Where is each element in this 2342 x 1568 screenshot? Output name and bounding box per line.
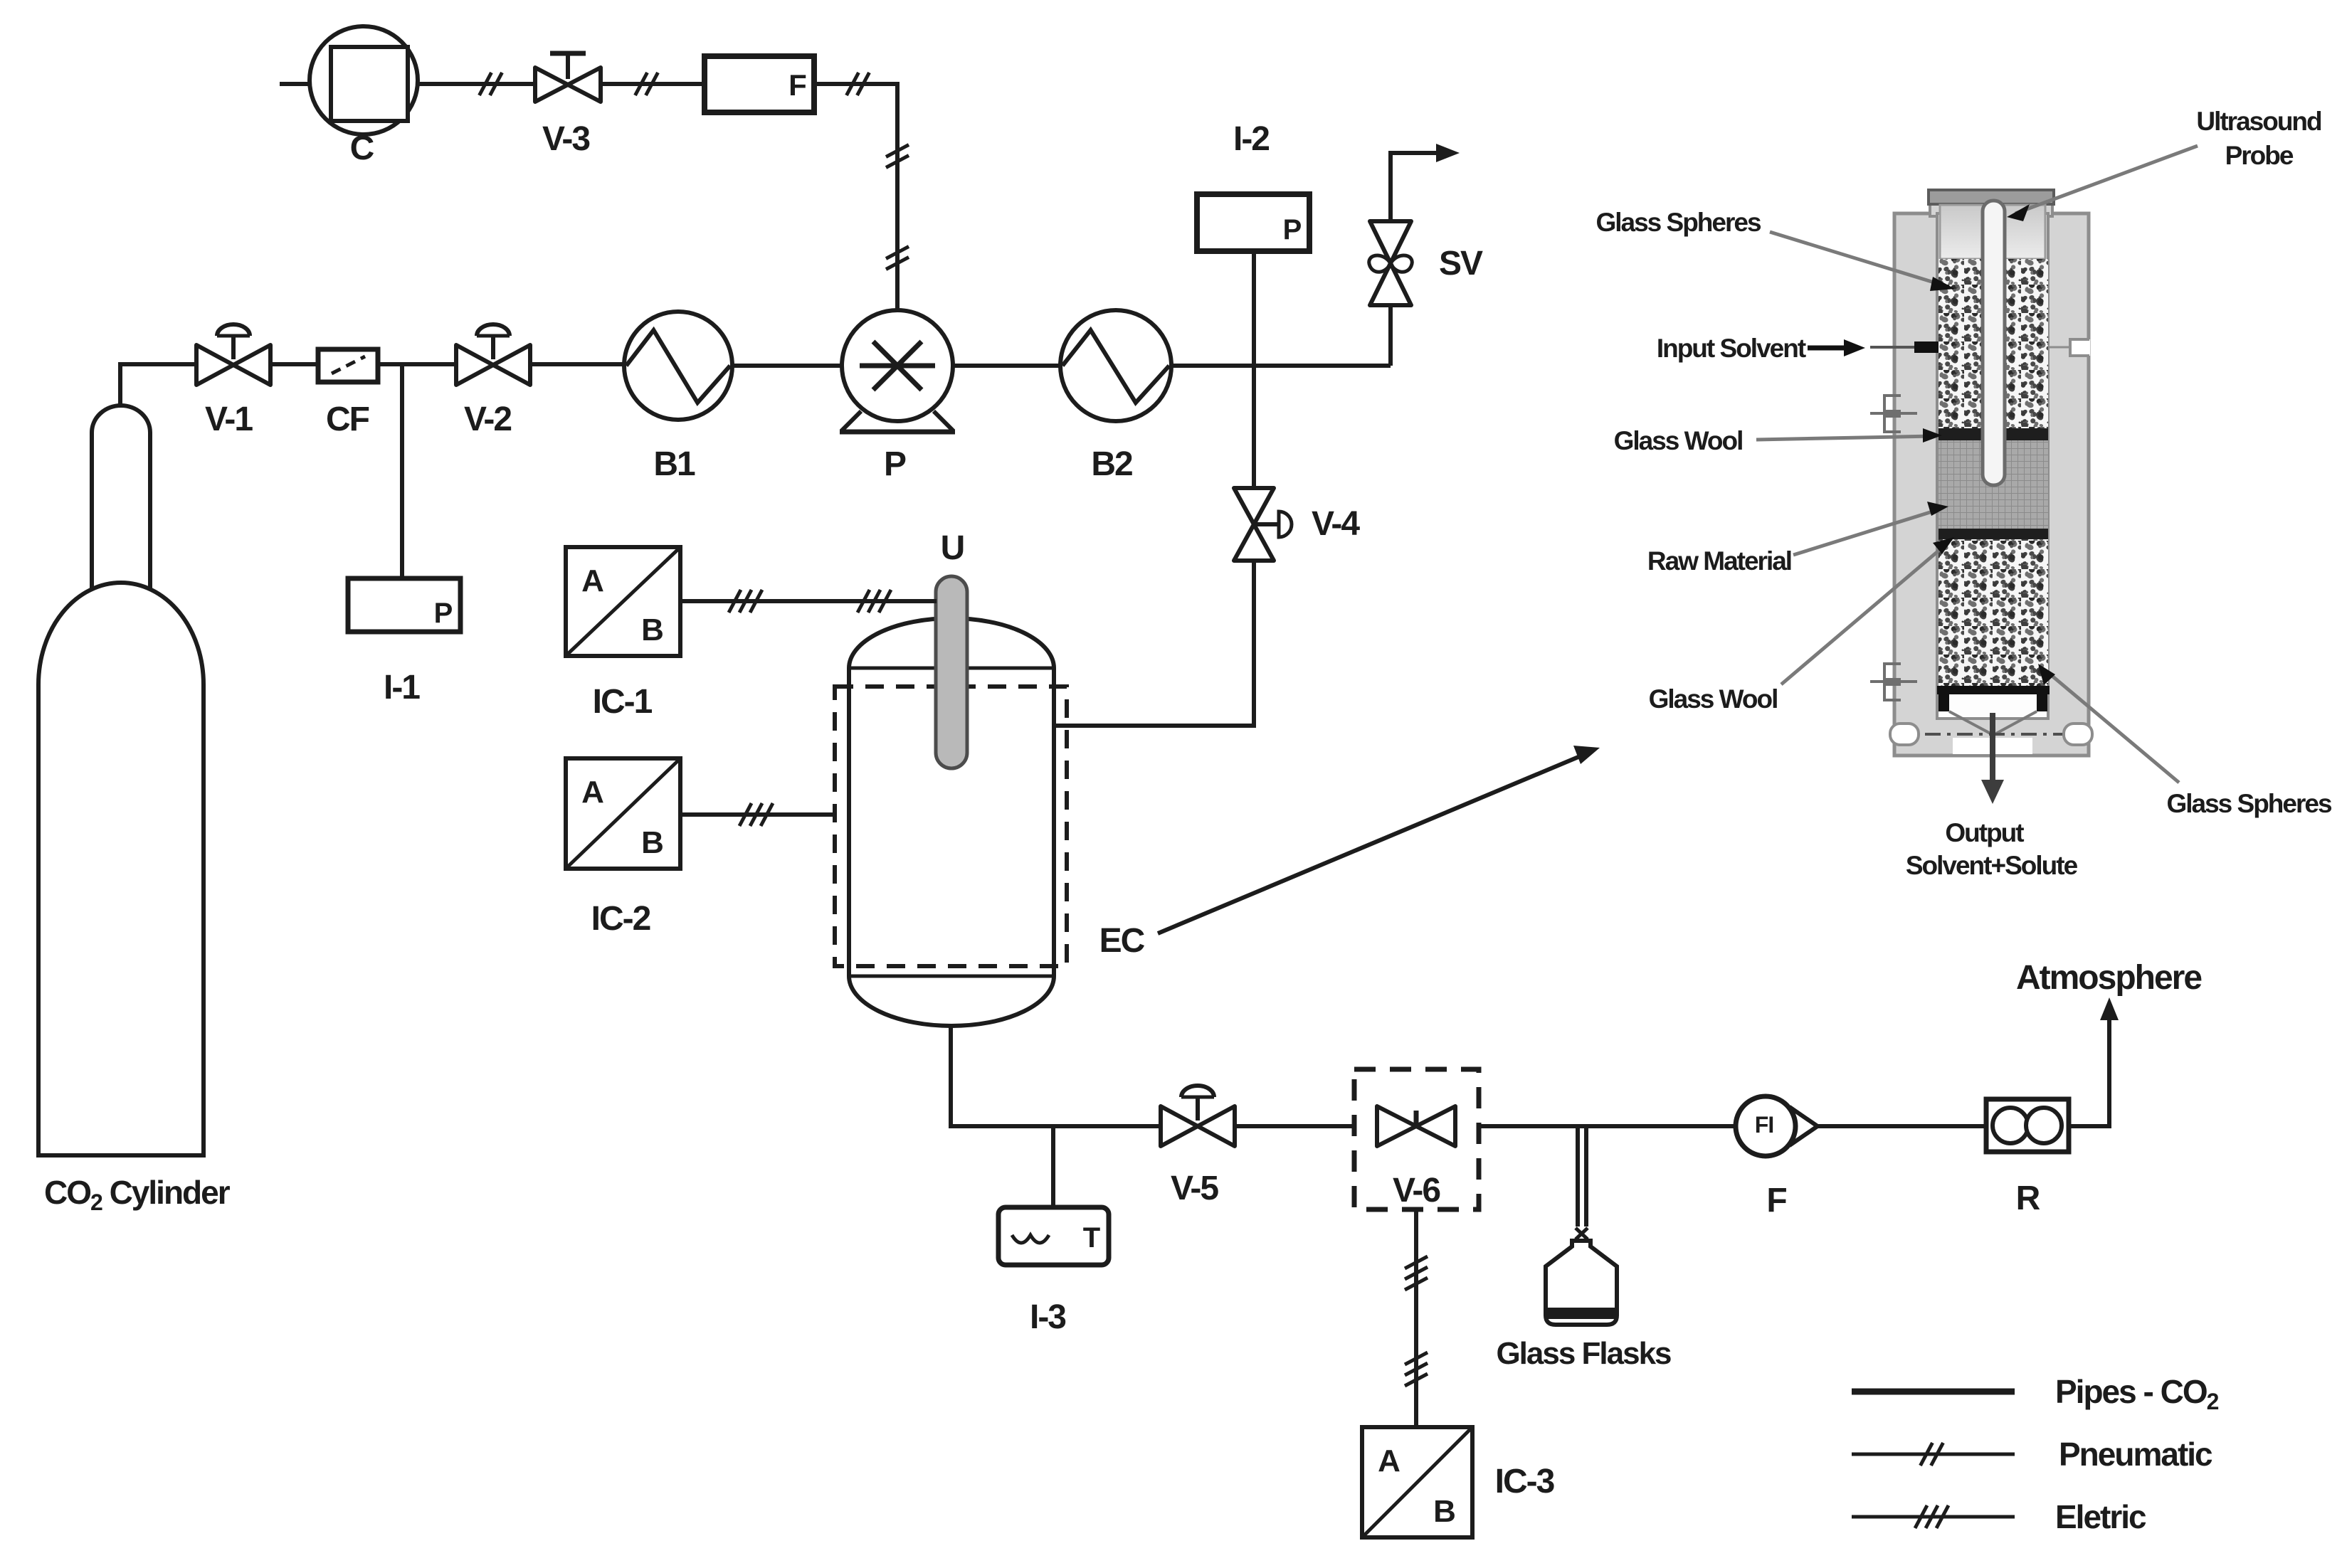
- svg-text:Atmosphere: Atmosphere: [2016, 959, 2202, 997]
- wire V-1 to CF: [270, 362, 318, 366]
- vent wire to atmosphere with arrow: [2069, 1013, 2109, 1126]
- svg-text:A: A: [1378, 1443, 1400, 1478]
- ultrasound probe U (grey rod): [936, 576, 967, 768]
- wire cylinder to V-1: [120, 364, 196, 406]
- svg-text:Input Solvent: Input Solvent: [1657, 334, 1806, 363]
- safety valve SV: [1370, 221, 1411, 305]
- svg-text:R: R: [2016, 1180, 2040, 1217]
- svg-text:IC-1: IC-1: [593, 683, 653, 721]
- filter F: [705, 56, 814, 112]
- svg-text:IC-3: IC-3: [1495, 1463, 1554, 1500]
- detail column: top cup interior: [1940, 205, 2045, 259]
- detail column: input solvent port: [1870, 346, 1916, 349]
- svg-text:Probe: Probe: [2225, 141, 2294, 170]
- svg-text:V-3: V-3: [542, 120, 589, 158]
- wire junction down to instrument I-3: [1051, 1126, 1055, 1207]
- glass flask: [1576, 1228, 1588, 1239]
- instrument IC-3 (A/B controller): [1362, 1427, 1472, 1537]
- vessel U shell: [849, 618, 1054, 1026]
- detail column: dark top cap: [1929, 190, 2054, 204]
- heat exchanger B1: [624, 312, 732, 420]
- instrument IC-2 (A/B controller): [566, 758, 680, 869]
- wire IC-1 to probe (electric): [680, 599, 937, 603]
- check valve / filter CF: [318, 349, 378, 382]
- wire V-2 to heat exchanger B1: [530, 362, 624, 366]
- svg-text:C: C: [350, 129, 374, 167]
- pump P: [840, 310, 955, 432]
- svg-text:I-2: I-2: [1233, 120, 1269, 158]
- detail column: flange dash-dot parting line: [1893, 733, 2090, 736]
- detail column: left bolt cutout: [1890, 724, 1919, 745]
- svg-text:A: A: [581, 775, 603, 810]
- detail column: funnel lines: [1949, 711, 2037, 733]
- svg-text:F: F: [788, 68, 806, 102]
- valve V-4: [1234, 488, 1274, 561]
- detail column: right side port notch: [2049, 346, 2070, 349]
- detail column: outer grey body: [1894, 213, 2089, 756]
- wire vessel bottom to bottom main line: [951, 1026, 1736, 1126]
- svg-text:Glass Spheres: Glass Spheres: [2166, 789, 2332, 818]
- svg-text:U: U: [941, 529, 964, 567]
- wire I-2 down through main line to V-4: [1252, 251, 1256, 489]
- svg-text:T: T: [1083, 1222, 1100, 1254]
- SV vent wire with arrow: [1391, 153, 1445, 221]
- detail column: glass wool band (upper): [1939, 428, 2048, 440]
- svg-text:I-3: I-3: [1030, 1298, 1065, 1336]
- flow indicator F (FI): [1793, 1109, 1818, 1143]
- svg-text:A: A: [581, 563, 603, 598]
- wire B1 to pump P: [732, 364, 842, 368]
- detail column: left clamp fitting (upper): [1870, 396, 1917, 432]
- wire V-6 to IC-3 (electric): [1414, 1209, 1418, 1427]
- legend: Pneumatic line: [1852, 1453, 2015, 1456]
- rotameter R: [1986, 1099, 2069, 1152]
- svg-text:IC-2: IC-2: [591, 900, 650, 938]
- detail column: bottom collector support: [1937, 686, 2050, 694]
- svg-text:Pipes - CO2: Pipes - CO2: [2055, 1373, 2219, 1414]
- svg-text:Ultrasound: Ultrasound: [2196, 107, 2321, 136]
- svg-text:P: P: [434, 598, 453, 629]
- heat exchanger B2: [1060, 310, 1171, 421]
- valve V-5: [1161, 1086, 1235, 1146]
- valve V-6 in dashed enclosure: [1354, 1069, 1479, 1209]
- compressor C: [310, 26, 418, 134]
- wire CF to V-2 with junction node: [378, 362, 456, 366]
- EC heating jacket (dashed) around vessel: [835, 687, 1067, 966]
- detail column: narrow top neck block: [1930, 202, 2052, 216]
- safety valve SV riser: [1388, 305, 1393, 366]
- svg-text:CF: CF: [326, 401, 369, 438]
- svg-text:EC: EC: [1099, 922, 1145, 960]
- svg-text:P: P: [1283, 214, 1302, 245]
- wire F to rotameter R: [1816, 1124, 1986, 1128]
- wire B2 to SV riser: [1171, 364, 1391, 368]
- svg-text:B: B: [641, 825, 663, 860]
- wire junction down to instrument I-1: [400, 364, 404, 578]
- svg-text:B: B: [1433, 1494, 1455, 1529]
- wire V-3 to filter F (pneumatic): [602, 82, 705, 86]
- valve V-2: [456, 324, 530, 385]
- wire V-4 down into vessel right side: [1054, 559, 1254, 726]
- detail column: glass spheres packing (bottom, stippled): [1939, 539, 2048, 687]
- svg-text:Pneumatic: Pneumatic: [2059, 1436, 2212, 1473]
- detail column: left clamp fitting (lower): [1870, 664, 1917, 700]
- svg-text:B: B: [641, 613, 663, 647]
- svg-text:V-6: V-6: [1393, 1172, 1440, 1209]
- svg-text:V-1: V-1: [205, 401, 253, 438]
- svg-text:FI: FI: [1755, 1112, 1773, 1138]
- instrument I-1 (pressure): [348, 578, 460, 632]
- svg-text:V-2: V-2: [464, 401, 511, 438]
- wire compressor C to valve V-3 (pneumatic): [418, 82, 534, 86]
- svg-text:Solvent+Solute: Solvent+Solute: [1906, 851, 2078, 880]
- svg-text:B2: B2: [1091, 445, 1132, 483]
- svg-text:V-4: V-4: [1312, 505, 1360, 543]
- svg-text:Glass Wool: Glass Wool: [1614, 426, 1743, 455]
- svg-text:SV: SV: [1439, 245, 1483, 282]
- svg-text:Eletric: Eletric: [2055, 1498, 2146, 1535]
- wire inlet stub to compressor: [280, 82, 311, 86]
- detail column: glass spheres packing (top, stippled): [1939, 259, 2048, 430]
- svg-text:Output: Output: [1945, 818, 2024, 847]
- svg-text:CO2 Cylinder: CO2 Cylinder: [44, 1174, 231, 1215]
- detail column: output arrow: [1990, 713, 1995, 783]
- detail column: inner bore: [1937, 213, 2048, 719]
- svg-text:Glass Flasks: Glass Flasks: [1496, 1336, 1671, 1371]
- wire junction to glass flask (double line): [1576, 1126, 1580, 1227]
- svg-text:P: P: [884, 445, 906, 483]
- svg-text:Glass Spheres: Glass Spheres: [1595, 208, 1761, 237]
- valve V-1: [196, 324, 270, 385]
- detail column: glass wool band (lower): [1939, 529, 2048, 539]
- CO2 cylinder: [92, 406, 150, 590]
- detail column: ultrasound probe rod: [1983, 201, 2005, 485]
- instrument I-3 (temperature): [998, 1207, 1109, 1265]
- svg-text:B1: B1: [653, 445, 695, 483]
- valve V-3: [535, 53, 601, 102]
- svg-text:F: F: [1766, 1182, 1786, 1219]
- detail column: raw material bed (crosshatch): [1939, 440, 2048, 529]
- wire pump P to heat exchanger B2: [953, 364, 1060, 368]
- svg-text:V-5: V-5: [1171, 1170, 1218, 1207]
- svg-text:Glass Wool: Glass Wool: [1649, 684, 1778, 714]
- wire IC-2 to vessel jacket (electric): [680, 812, 835, 817]
- svg-text:I-1: I-1: [384, 669, 420, 706]
- wire filter F to pump P riser (pneumatic): [814, 84, 897, 310]
- svg-text:Raw Material: Raw Material: [1647, 546, 1791, 576]
- legend: Pipes - CO2: [1852, 1389, 2015, 1395]
- legend: Eletric line: [1852, 1515, 2015, 1519]
- detail column: right bolt cutout: [2064, 724, 2092, 745]
- instrument IC-1 (A/B controller): [566, 547, 680, 656]
